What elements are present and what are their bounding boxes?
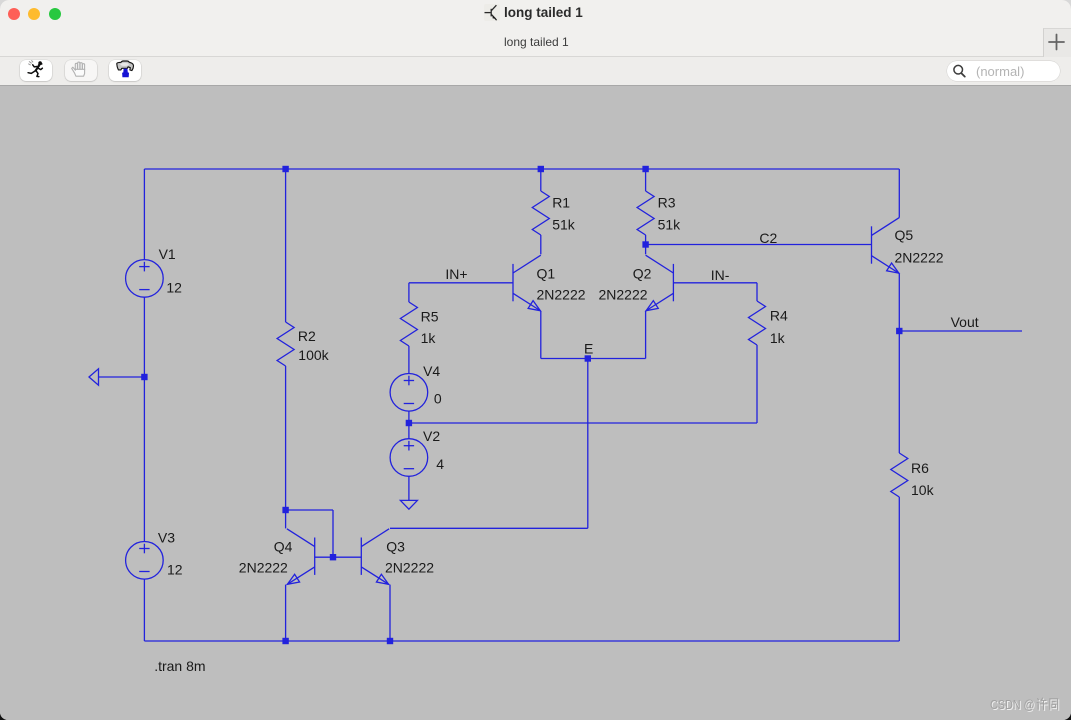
svg-text:100k: 100k bbox=[298, 347, 329, 363]
svg-text:C2: C2 bbox=[759, 230, 777, 246]
svg-text:R1: R1 bbox=[552, 195, 570, 211]
svg-text:V4: V4 bbox=[423, 363, 440, 379]
svg-text:R3: R3 bbox=[658, 195, 676, 211]
svg-text:10k: 10k bbox=[911, 482, 935, 498]
svg-text:Vout: Vout bbox=[951, 314, 979, 330]
svg-text:12: 12 bbox=[167, 562, 183, 578]
svg-text:1k: 1k bbox=[770, 330, 786, 346]
svg-text:IN-: IN- bbox=[711, 267, 730, 283]
svg-text:R4: R4 bbox=[770, 308, 788, 324]
svg-text:Q3: Q3 bbox=[386, 538, 405, 554]
svg-text:4: 4 bbox=[436, 456, 444, 472]
svg-text:Q5: Q5 bbox=[895, 227, 914, 243]
svg-text:1k: 1k bbox=[421, 330, 437, 346]
svg-text:V3: V3 bbox=[158, 530, 175, 546]
svg-text:E: E bbox=[584, 341, 593, 357]
svg-text:2N2222: 2N2222 bbox=[385, 560, 434, 576]
svg-text:2N2222: 2N2222 bbox=[239, 560, 288, 576]
svg-text:V1: V1 bbox=[159, 246, 176, 262]
svg-text:Q1: Q1 bbox=[537, 265, 556, 281]
svg-text:12: 12 bbox=[166, 279, 182, 295]
svg-text:CSDN @: CSDN @ bbox=[990, 697, 1035, 712]
svg-text:R5: R5 bbox=[421, 309, 439, 325]
svg-text:51k: 51k bbox=[552, 217, 576, 233]
svg-text:R2: R2 bbox=[298, 328, 316, 344]
svg-text:51k: 51k bbox=[658, 217, 682, 233]
svg-text:Q2: Q2 bbox=[633, 265, 652, 281]
svg-text:V2: V2 bbox=[423, 428, 440, 444]
svg-text:2N2222: 2N2222 bbox=[895, 249, 944, 265]
svg-text:2N2222: 2N2222 bbox=[599, 287, 648, 303]
svg-text:R6: R6 bbox=[911, 460, 929, 476]
svg-text:2N2222: 2N2222 bbox=[537, 287, 586, 303]
svg-text:.tran 8m: .tran 8m bbox=[154, 658, 205, 674]
svg-text:0: 0 bbox=[434, 391, 442, 407]
svg-text:Q4: Q4 bbox=[274, 538, 293, 554]
svg-text:IN+: IN+ bbox=[445, 266, 467, 282]
